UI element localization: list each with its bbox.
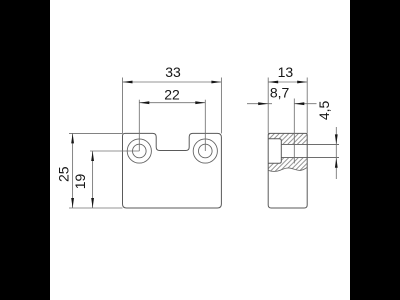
dimension 8,7 arrow right (outside, pointing left) [294,102,304,105]
svg-text:8,7: 8,7 [270,84,290,100]
svg-text:13: 13 [278,64,294,80]
dimension 8,7 extension line (depth) [293,99,295,164]
front view plate outline with top notch [123,133,222,208]
dimension 4,5 line [335,127,337,179]
dimension 19 arrow top [91,151,94,161]
dimension 22 arrow left [139,101,149,104]
dimension 19 extension / centerline left hole horizontal [90,150,139,152]
dimension 8,7 line left segment [247,103,272,105]
dimension 4,5 arrow bottom (outside, pointing up) [335,158,338,168]
dimension 13 arrow left [268,81,278,84]
dimension 25/19 extension line bottom [69,207,123,209]
hatch material upper right block [281,139,307,145]
dimension 8,7 arrow left (outside, pointing right) [258,102,268,105]
dimension 22 extension / centerline right hole [204,100,206,151]
dimension 19 line [92,151,94,208]
bore bottom edge + dim 4,5 extension bottom [281,157,339,159]
dimension 13 line [268,81,307,83]
bore top edge + dim 4,5 extension top [281,143,339,145]
side view outline [268,133,307,208]
hatch material lower region bounded by break line [268,158,307,172]
break line (wavy) [268,167,307,171]
hole H1 bore circle [133,144,147,158]
dimension 22 extension / centerline left hole [138,100,140,151]
dimension 19 arrow bottom [91,198,94,208]
counterbore cavity outline [268,139,281,164]
dimension 8,7 line right segment [294,103,316,105]
hole H1 counterbore circle [127,139,151,163]
dimension 22 arrow right [195,101,205,104]
dimension 4,5 arrow top (outside, pointing down) [335,134,338,144]
dimension 13 arrow right [297,81,307,84]
dimension 33 arrow right [211,81,221,84]
dimension 33 extension line left [122,78,124,134]
svg-text:22: 22 [164,86,180,102]
svg-text:25: 25 [55,166,71,182]
dimension 33 extension line right [220,78,222,134]
dimension 33 line [123,81,222,83]
dimension 25 extension line top [69,132,123,134]
hole H2 counterbore circle [193,139,217,163]
hatch material top strip [268,133,307,138]
black bar left [0,0,50,300]
dimension 25 arrow top [71,133,74,143]
dimension 25 line [72,133,74,208]
dimension 13 extension line left [267,78,269,134]
dimension 25 arrow bottom [71,198,74,208]
svg-text:33: 33 [165,64,181,80]
svg-text:19: 19 [72,174,88,190]
black bar right [350,0,400,300]
dimension 22 line [139,102,205,104]
dimension 33 arrow left [123,81,133,84]
hole H2 bore circle [199,144,213,158]
svg-text:4,5: 4,5 [316,100,332,120]
dimension 13 extension line right [306,78,308,134]
